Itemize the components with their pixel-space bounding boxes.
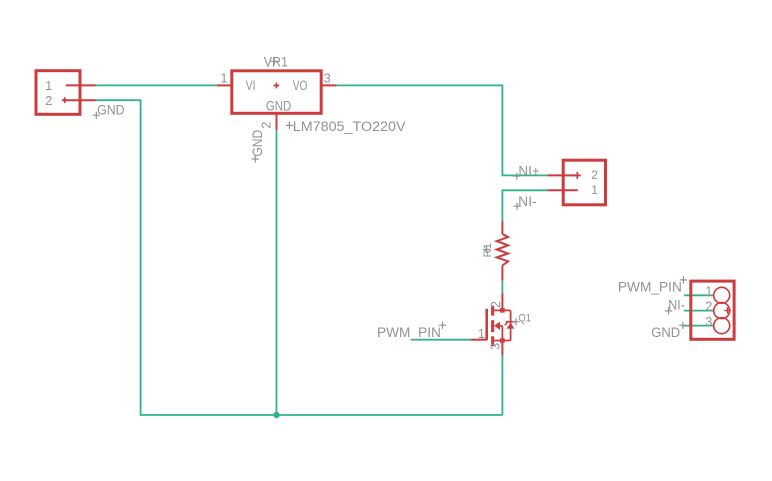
connector JP1 body: [36, 71, 80, 115]
svg-text:2: 2: [259, 122, 273, 129]
svg-text:1: 1: [705, 284, 712, 298]
wire net PWM_PIN to Q1 gate: [411, 339, 471, 341]
JP3 pin 1 pad: [705, 284, 729, 303]
svg-text:GND: GND: [97, 103, 125, 118]
svg-text:1: 1: [45, 79, 52, 93]
wire net GND from JP1 pin 2 along bottom rail: [96, 100, 503, 415]
wire stub net NI- at JP3 pin 2: [684, 310, 714, 312]
R1 name label: [482, 243, 494, 258]
svg-text:1: 1: [478, 327, 485, 341]
svg-text:GND: GND: [266, 98, 292, 113]
svg-text:GND: GND: [651, 325, 680, 340]
VR1 pin 3 (VO): [323, 71, 337, 85]
svg-text:PWM_PIN: PWM_PIN: [377, 325, 441, 340]
VR1 origin cross: [274, 83, 280, 89]
svg-text:3: 3: [489, 343, 503, 350]
connector JP2 body: [563, 160, 605, 205]
svg-text:R1: R1: [482, 243, 494, 258]
JP2 pin 1: [547, 183, 598, 197]
JP3 pin 3 pad: [705, 315, 729, 334]
net label NI- at JP3: [665, 298, 685, 315]
JP1 pin 2: [45, 94, 96, 108]
connector JP3 body: [691, 281, 734, 339]
svg-text:VO: VO: [293, 78, 308, 93]
Q1 gate pin 1: [471, 327, 487, 341]
svg-text:2: 2: [489, 301, 503, 308]
voltage regulator VR1 body: [232, 71, 321, 114]
svg-text:VI: VI: [246, 78, 256, 93]
JP3 pin 2 pad: [705, 300, 729, 319]
net label NI-: [514, 194, 537, 210]
JP2 origin cross: [574, 172, 581, 179]
VR1 pin 2 (GND): [259, 114, 276, 130]
wire stub net GND at JP3 pin 3: [683, 325, 714, 327]
wire net NI- from R1 bottom to Q1 drain: [501, 280, 503, 293]
svg-text:Q1: Q1: [518, 313, 531, 325]
svg-text:1: 1: [221, 71, 228, 85]
Q1 body diode: [505, 322, 515, 329]
Q1 source pin 3: [489, 338, 505, 355]
JP1 pin 1: [45, 79, 96, 93]
junction on GND rail: [273, 412, 279, 418]
wire net GND from VR1 pin 2 down to bottom rail: [276, 130, 278, 415]
JP1 origin cross: [62, 97, 68, 103]
net label GND vertical at VR1 pin 2: [250, 130, 265, 163]
Q1 drain pin 2: [489, 294, 505, 313]
svg-text:NI-: NI-: [518, 194, 537, 209]
resistor R1: [497, 221, 508, 280]
JP3 origin cross: [724, 307, 730, 313]
svg-text:2: 2: [45, 94, 52, 108]
VR1 name label: [264, 55, 288, 70]
net label NI+: [513, 164, 540, 180]
svg-text:3: 3: [324, 71, 331, 85]
wire stub net PWM_PIN at JP3 pin 1: [684, 294, 714, 296]
svg-text:GND: GND: [250, 130, 265, 157]
svg-text:2: 2: [591, 168, 598, 182]
svg-text:NI-: NI-: [668, 298, 685, 313]
VR1 pin 1 (VI): [217, 71, 231, 85]
svg-text:LM7805_TO220V: LM7805_TO220V: [293, 119, 406, 134]
svg-text:1: 1: [591, 183, 598, 197]
wire net NI+ from VR1 VO to JP2 pin 2: [337, 85, 548, 175]
wire net GND from Q1 source down to bottom rail: [501, 355, 503, 415]
svg-text:PWM_PIN: PWM_PIN: [618, 279, 682, 294]
wire net NI- from JP2 pin 1 to R1 top: [502, 190, 547, 221]
svg-text:3: 3: [705, 315, 712, 329]
svg-text:2: 2: [705, 300, 712, 314]
Q1 name label: [512, 313, 531, 326]
transistor Q1 (N-MOSFET): [487, 306, 511, 347]
VR1 value label LM7805_TO220V: [286, 119, 406, 134]
JP2 pin 2: [547, 168, 598, 182]
wire net N$1 from JP1 pin 1 to VR1 VI: [96, 84, 217, 86]
svg-text:VR1: VR1: [264, 55, 288, 70]
net label PWM_PIN at JP3: [618, 276, 687, 294]
net label GND at JP3: [651, 322, 686, 340]
net label GND at JP1: [93, 103, 125, 119]
svg-text:NI+: NI+: [518, 164, 540, 179]
net label PWM_PIN at Q1 gate: [377, 322, 446, 340]
